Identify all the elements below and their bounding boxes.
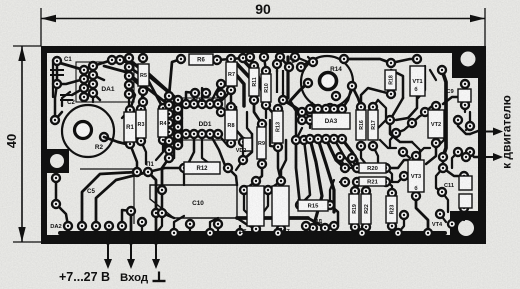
pad: [52, 200, 60, 208]
wire: [62, 92, 70, 106]
pad: [358, 229, 366, 237]
wire: [436, 140, 444, 148]
capacitor C5 outline: [80, 169, 134, 224]
wire: [173, 96, 176, 158]
wire: [403, 152, 410, 158]
wire: [93, 60, 120, 66]
capacitor C8 plates: [277, 70, 283, 93]
pad: [297, 63, 305, 71]
pad: [213, 56, 221, 64]
pad: [439, 164, 447, 172]
mounting block left-middle: [47, 149, 69, 173]
diode VD2 body: [243, 138, 252, 151]
resistor R21: [359, 177, 386, 186]
capacitor C7 body: [272, 186, 289, 226]
pad: [262, 67, 270, 75]
capacitor C11 body lower: [459, 194, 472, 208]
pad: [165, 92, 173, 100]
pad: [300, 136, 308, 144]
wire: [352, 86, 361, 107]
wire: [365, 182, 367, 191]
wire: [326, 139, 345, 168]
pad: [399, 148, 407, 156]
resistor R10: [261, 74, 271, 102]
pad: [348, 82, 356, 90]
pad: [274, 143, 282, 151]
pad: [322, 105, 330, 113]
wire: [243, 134, 252, 160]
PCB board outer frame: [41, 46, 486, 244]
wire: [67, 226, 70, 233]
pad: [277, 177, 285, 185]
pad: [227, 86, 235, 94]
wire: [239, 226, 241, 233]
mounting block top-right: [452, 46, 486, 78]
pad: [206, 229, 214, 237]
pad: [152, 209, 160, 217]
pad: [296, 201, 304, 209]
wire: [232, 70, 244, 106]
pad: [258, 120, 266, 128]
pad: [206, 100, 214, 108]
wire: [266, 105, 278, 112]
wire: [210, 218, 218, 233]
pad: [386, 116, 394, 124]
pad: [306, 105, 314, 113]
pad: [387, 90, 395, 98]
wire: [95, 226, 98, 233]
pad: [326, 201, 334, 209]
wire: [262, 190, 268, 214]
left dimension line 40: [21, 46, 23, 242]
wire: [276, 64, 278, 72]
wire: [387, 182, 392, 193]
resistor R17: [368, 110, 378, 140]
pad: [413, 55, 421, 63]
pad: [214, 130, 222, 138]
pad: [388, 222, 396, 230]
pad R2 wiper: [100, 133, 108, 141]
wire: [164, 100, 166, 150]
pad: [52, 174, 60, 182]
pad: [191, 89, 199, 97]
wire: [440, 214, 446, 222]
pad: [53, 80, 61, 88]
pad: [438, 66, 446, 74]
wire: [148, 168, 184, 172]
pad: [279, 96, 287, 104]
pad: [412, 192, 420, 200]
wire: [308, 57, 313, 62]
wire: [244, 190, 252, 218]
wire: [202, 134, 210, 164]
wire: [177, 100, 180, 145]
pad: [53, 57, 61, 65]
wire: [308, 218, 325, 228]
wire: [218, 134, 231, 146]
wire: [312, 228, 314, 233]
wire: [254, 100, 262, 124]
wire: [220, 94, 223, 112]
pad: [408, 119, 416, 127]
pad: [298, 116, 306, 124]
wire: [129, 67, 163, 108]
pad: [108, 56, 116, 64]
pad: [424, 229, 432, 237]
wire: [301, 62, 308, 67]
pad: [306, 135, 314, 143]
wire: [236, 142, 243, 170]
wire: [156, 140, 163, 160]
pad: [182, 100, 190, 108]
wire: [96, 172, 148, 226]
wire: [324, 228, 326, 233]
pad: [217, 90, 225, 98]
wire: [112, 60, 172, 95]
pad: [227, 55, 235, 63]
wire: [130, 211, 133, 244]
wire: [155, 213, 158, 244]
wire: [141, 222, 143, 233]
pad: [217, 80, 225, 88]
wire: [378, 100, 386, 128]
wire: [340, 157, 345, 168]
wire: [163, 140, 169, 150]
transistor VT3: [408, 160, 424, 192]
wire: [282, 92, 284, 100]
wire: [290, 83, 308, 101]
pad: [432, 139, 440, 147]
pad: [239, 156, 247, 164]
wire: [451, 224, 453, 233]
pad: [357, 103, 365, 111]
wire: [430, 70, 436, 80]
wire: [300, 140, 310, 205]
wire: [442, 192, 448, 212]
wire: [281, 140, 286, 181]
pad: [264, 186, 272, 194]
wire: [436, 168, 443, 192]
motor arrow upper: [486, 128, 503, 136]
pad: [180, 164, 188, 172]
pad: [336, 153, 344, 161]
wire: [354, 227, 356, 233]
wire: [237, 64, 254, 100]
pad: [304, 79, 312, 87]
wire: [104, 137, 130, 145]
pad: [217, 108, 225, 116]
pad: [64, 222, 72, 230]
wire: [398, 176, 404, 182]
pad: [421, 108, 429, 116]
wire: [463, 208, 465, 220]
pad: [174, 132, 182, 140]
wire: [178, 134, 186, 142]
pad: [348, 154, 356, 162]
wire: [174, 216, 184, 233]
wire: [443, 97, 458, 104]
wire: [130, 144, 137, 172]
pad: [392, 129, 400, 137]
pad: [400, 172, 408, 180]
wire: [470, 131, 478, 134]
pad: [239, 138, 247, 146]
wire: [108, 226, 110, 233]
dimension extension tick bottom-left: [13, 241, 41, 243]
pad: [400, 211, 408, 219]
resistor R12: [184, 162, 220, 174]
trimmer R14 body: [301, 56, 353, 108]
pad: [174, 141, 182, 149]
pad: [250, 62, 258, 70]
pad: [332, 92, 340, 100]
pad: [291, 53, 299, 61]
wire: [318, 139, 334, 212]
wire: [82, 172, 137, 226]
wire: [230, 90, 233, 107]
capacitor C1 plates: [50, 70, 64, 75]
pad: [436, 210, 444, 218]
wire: [452, 152, 458, 168]
wire: [412, 142, 420, 160]
capacitor C11 body upper: [459, 176, 472, 190]
pad: [89, 80, 97, 88]
pad: [190, 100, 198, 108]
pad: [461, 101, 469, 109]
pad: [439, 153, 447, 161]
pad: [460, 204, 468, 212]
wire: [334, 139, 352, 166]
wire: [186, 134, 194, 168]
pad: [338, 135, 346, 143]
pad: [369, 142, 377, 150]
pad: [454, 116, 462, 124]
wire: [442, 157, 445, 168]
wire: [210, 84, 221, 104]
pad: [362, 223, 370, 231]
pad: [309, 224, 317, 232]
wire: [352, 152, 357, 168]
op-amp DA3: [312, 113, 350, 129]
pad: [174, 123, 182, 131]
wire: [390, 98, 403, 120]
wire: [386, 168, 392, 182]
connection arrow +7...27V: [104, 244, 112, 269]
pad: [322, 135, 330, 143]
pad: [353, 178, 361, 186]
wire: [162, 190, 174, 218]
wire: [265, 105, 267, 118]
wire: [436, 120, 444, 140]
wire: [237, 216, 308, 220]
wire: [92, 93, 94, 102]
resistor R7: [226, 62, 237, 86]
pad: [306, 108, 314, 116]
pad: [125, 72, 133, 80]
resistor R13: [272, 111, 283, 143]
ground symbol: [153, 272, 166, 282]
wire: [189, 224, 191, 233]
pad: [78, 222, 86, 230]
pad: [105, 222, 113, 230]
pad: [190, 130, 198, 138]
wire: [342, 86, 352, 109]
pad: [351, 223, 359, 231]
resistor R18: [385, 70, 396, 90]
wire: [52, 60, 54, 97]
pad: [438, 188, 446, 196]
wire: [464, 105, 466, 112]
wire: [278, 147, 281, 181]
pad: [351, 187, 359, 195]
resistor R9: [257, 127, 266, 159]
pad: [165, 128, 173, 136]
wire: [342, 139, 357, 168]
pad: [80, 66, 88, 74]
pad: [214, 100, 222, 108]
top dimension line 90: [41, 18, 485, 20]
pad: [326, 104, 334, 112]
wire: [412, 112, 430, 123]
wire: [55, 178, 58, 204]
wire: [264, 57, 266, 71]
pad: [170, 229, 178, 237]
wire: [168, 96, 171, 158]
wire: [329, 108, 332, 114]
pad: [125, 54, 133, 62]
wire: [210, 134, 226, 168]
wire: [398, 215, 404, 233]
resistor R6: [189, 54, 213, 65]
pad: [274, 105, 282, 113]
pad: [227, 139, 235, 147]
pad: [202, 89, 210, 97]
wire: [162, 158, 169, 190]
pad: [118, 222, 126, 230]
wire: [56, 204, 68, 226]
resistor R11: [249, 68, 259, 96]
resistor R8: [225, 110, 237, 140]
pad: [314, 135, 322, 143]
pad: [139, 87, 147, 95]
pad: [448, 220, 456, 228]
pad: [177, 55, 185, 63]
wire: [310, 103, 312, 109]
pad: [125, 90, 133, 98]
wire: [128, 58, 131, 94]
pad: [214, 220, 222, 228]
wire: [129, 85, 135, 110]
pad: [224, 164, 232, 172]
pad: [137, 105, 145, 113]
wire: [193, 96, 195, 104]
pad: [174, 105, 182, 113]
capacitor C9 body: [458, 89, 471, 102]
pad: [260, 53, 268, 61]
wire: [296, 112, 310, 140]
wire: [396, 123, 412, 133]
transistor VT1: [410, 66, 425, 96]
dimension extension line left of top dim: [40, 8, 42, 46]
wire: [458, 120, 470, 134]
pad: [126, 140, 134, 148]
resistor R15: [298, 200, 328, 211]
wire: [365, 227, 367, 233]
pad: [165, 146, 173, 154]
pad: [462, 153, 470, 161]
wire: [244, 181, 256, 190]
motor arrow lower: [486, 153, 503, 161]
pad: [341, 178, 349, 186]
pad: [89, 62, 97, 70]
pad: [292, 136, 300, 144]
wire: [141, 141, 146, 164]
pad: [321, 224, 329, 232]
pad: [165, 137, 173, 145]
wire: [57, 61, 84, 70]
wire: [236, 107, 243, 138]
top dimension left arrowhead: [41, 15, 56, 22]
capacitor C6 body: [247, 186, 264, 226]
wire: [361, 146, 366, 164]
wire: [305, 226, 307, 233]
pad: [174, 96, 182, 104]
resistor R19: [349, 194, 359, 224]
wire: [217, 59, 231, 60]
resistor R22: [361, 194, 371, 224]
wire: [56, 61, 59, 84]
pad: [340, 55, 348, 63]
pad: [382, 178, 390, 186]
pad: [277, 225, 285, 233]
pad: [240, 186, 248, 194]
left dimension top arrowhead: [18, 46, 25, 61]
wire: [280, 57, 289, 67]
pad: [80, 93, 88, 101]
wire: [55, 112, 62, 120]
wire: [268, 181, 281, 190]
wire: [310, 139, 322, 228]
connection arrow ground: [152, 244, 160, 269]
wire: [390, 120, 412, 142]
pad: [382, 164, 390, 172]
board interior background: [47, 53, 478, 235]
wire: [122, 210, 131, 226]
pad: [116, 56, 124, 64]
pad: [273, 60, 281, 68]
wire: [181, 104, 183, 146]
wire: [425, 106, 432, 112]
capacitor C10 outline: [150, 185, 237, 218]
pad: [139, 98, 147, 106]
wire: [55, 84, 57, 120]
wire: [296, 140, 300, 205]
wire: [391, 226, 393, 233]
pad: [258, 160, 266, 168]
wire: [390, 133, 396, 148]
wire: [416, 196, 428, 233]
wire: [218, 90, 231, 104]
pad: [330, 135, 338, 143]
wire: [396, 83, 417, 120]
wire: [294, 50, 296, 57]
pad: [461, 80, 469, 88]
pad: [89, 71, 97, 79]
pad: [165, 101, 173, 109]
wire: [466, 112, 470, 130]
pad: [302, 222, 310, 230]
wire: [330, 205, 338, 226]
